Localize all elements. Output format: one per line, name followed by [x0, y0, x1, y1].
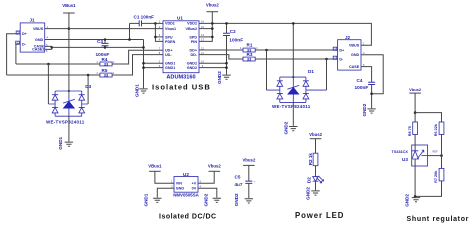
pin 3 (D+) number box [16, 31, 20, 35]
node shunt ground join [414, 195, 417, 198]
svg-text:GND1: GND1 [135, 84, 140, 97]
wire TVS D1 right tap drop [326, 59, 328, 90]
svg-text:R8 75: R8 75 [408, 126, 412, 136]
svg-text:R2 1k: R2 1k [308, 153, 313, 166]
wire J2 CASE down to C4 [361, 67, 372, 83]
svg-text:UD-: UD- [165, 53, 172, 57]
op-amp U1 ADUM3160 isolator [163, 16, 199, 81]
LED D2 [307, 176, 324, 183]
power VBus1 top-left [62, 3, 76, 13]
wire CASE stubs tie [45, 46, 52, 49]
wire U2 GND to ground [157, 188, 174, 197]
node C2 top [225, 22, 228, 25]
node GND2 pin10 [225, 62, 228, 65]
svg-text:TS431CX: TS431CX [392, 150, 409, 154]
svg-text:SPD: SPD [189, 35, 197, 39]
svg-text:U3: U3 [402, 157, 408, 162]
pin 3 (J2 D+) number box [333, 47, 337, 51]
wire R2 to LED [315, 166, 317, 177]
svg-text:C2: C2 [230, 29, 236, 34]
wire D1 center to GND2 [292, 102, 294, 126]
svg-text:GND1: GND1 [165, 62, 175, 66]
capacitor C2 100nF [223, 23, 243, 61]
ground GND1 under U2 [144, 193, 162, 206]
svg-text:C1 100nF: C1 100nF [134, 14, 155, 19]
node VDD1 tie [154, 22, 157, 25]
node D- / TVS tap [47, 63, 50, 66]
pin 2 (J2 D-) number box [333, 56, 337, 60]
svg-text:+V: +V [192, 182, 197, 186]
power VBus1 (DC/DC input) [148, 163, 162, 171]
svg-text:NMV0505SA: NMV0505SA [173, 193, 199, 198]
node CASE tie [51, 46, 54, 49]
node D+ / TVS tap [87, 74, 90, 77]
svg-text:D3: D3 [85, 84, 91, 89]
svg-text:PDEN: PDEN [165, 40, 176, 44]
node D1 top rail [292, 76, 294, 78]
svg-text:R6 22k: R6 22k [434, 123, 438, 136]
svg-text:UD+: UD+ [165, 49, 172, 53]
svg-text:Vbus2: Vbus2 [208, 163, 222, 168]
wire VDD1 to SPU/PDEN [155, 23, 163, 41]
ground GND2 under U2 [204, 193, 222, 206]
svg-text:C5: C5 [235, 174, 241, 179]
svg-text:100nF: 100nF [229, 37, 243, 43]
svg-text:WE-TVSP824011: WE-TVSP824011 [272, 104, 311, 109]
power Vbus2 (shunt branch) [409, 87, 422, 93]
wire U3 to ground [414, 166, 416, 197]
ground GND1 under U1 [135, 84, 148, 97]
wire J1 D- left and down [16, 44, 20, 64]
svg-text:GND: GND [176, 187, 185, 191]
node GND/CASE join [142, 46, 145, 49]
wire R4 to U1 UD+ [112, 50, 163, 64]
ground GND2 under LED [306, 187, 320, 200]
wire branch to R6 [415, 113, 441, 123]
svg-text:VBus1: VBus1 [62, 3, 76, 8]
pin numbers U2 [171, 179, 202, 188]
svg-text:4u7: 4u7 [235, 182, 243, 187]
node D1/Vbus2 rail [292, 22, 295, 25]
wire J1 D+ left and down [7, 34, 21, 75]
wire VDD2 top rail to J2 VBUS [199, 23, 371, 45]
pin numbers U1 right 16-9 [201, 20, 204, 68]
node GND1 pin7 [142, 62, 145, 65]
wire U1 pin14 stub [199, 36, 212, 38]
svg-text:VBus1: VBus1 [148, 163, 162, 168]
ground GND2 under J2 [362, 103, 376, 116]
svg-text:DD+: DD+ [190, 49, 197, 53]
power Vbus2 top-right [206, 2, 220, 11]
svg-text:Vbus1: Vbus1 [165, 27, 176, 31]
svg-text:33: 33 [104, 72, 109, 77]
wire R6 to REF node [441, 135, 443, 156]
svg-text:ADUM3160: ADUM3160 [166, 74, 195, 80]
svg-text:0V: 0V [192, 187, 197, 191]
resistor R8 75 [408, 122, 418, 136]
wire DD- jog to R3 [199, 55, 243, 59]
svg-text:GND2: GND2 [187, 66, 197, 70]
svg-text:J1: J1 [30, 17, 36, 22]
svg-text:C3: C3 [97, 39, 103, 44]
wire GND rail J1 to GND1 corner [45, 39, 144, 41]
node C1/GND [128, 38, 131, 41]
svg-text:Shunt regulator: Shunt regulator [407, 216, 470, 223]
resistor R7 20k [434, 168, 444, 183]
svg-text:D+: D+ [22, 32, 27, 36]
capacitor C4 100nF [355, 78, 376, 108]
svg-text:REF: REF [433, 150, 439, 154]
wire CASE rail to GND1 vertical [52, 46, 144, 48]
op-amp U2 NMV0505SA [173, 172, 199, 198]
svg-text:GND1: GND1 [165, 66, 175, 70]
wire R8 to U3 [414, 135, 416, 146]
wire Vbus2 down to R8 [414, 93, 416, 122]
node VBus1/VBUS junction [68, 27, 71, 30]
ground GND2 shunt [405, 194, 421, 207]
power Vbus2 (LED branch) [309, 132, 323, 139]
node D- / TVS D1 tap [325, 58, 328, 61]
svg-text:D2: D2 [307, 177, 312, 183]
wire D3 center to GND1 [68, 116, 70, 141]
wire U1 pin15 stub [199, 28, 212, 30]
capacitor C5 4u7 [235, 165, 256, 198]
svg-text:GND: GND [35, 38, 44, 42]
node GND2 pin9 [225, 66, 228, 69]
svg-text:SPU: SPU [165, 35, 173, 39]
wire Vbus2 to R2 [315, 139, 317, 154]
ground GND2 under C2 [217, 71, 231, 84]
wire D1 center up to Vbus2 rail [292, 23, 294, 77]
svg-text:Vbus2: Vbus2 [409, 87, 422, 92]
svg-text:VIN: VIN [176, 182, 182, 186]
wire VBUS rail J1 to U1 pin2 [45, 28, 163, 30]
node pin14 tie [211, 36, 214, 39]
svg-text:Isolated DC/DC: Isolated DC/DC [159, 213, 217, 220]
svg-text:GND2: GND2 [284, 121, 289, 134]
node SPU tie [154, 36, 157, 39]
svg-text:GND1: GND1 [144, 193, 149, 206]
svg-text:GND2: GND2 [362, 103, 367, 116]
wire C1 left leg down to GND rail [129, 23, 131, 39]
wire J2 GND right and down [361, 55, 383, 94]
svg-text:GND2: GND2 [306, 187, 311, 200]
svg-text:VBUS: VBUS [349, 44, 360, 48]
wire R5 to U1 UD- [112, 55, 163, 75]
svg-text:VBUS: VBUS [33, 27, 44, 31]
resistor R5 33 [97, 68, 116, 78]
wire R7 down and left to U3 cathode [415, 181, 441, 197]
ground GND1 under D3 [58, 136, 73, 149]
ground GND2 under C5 [234, 193, 253, 206]
svg-text:D+: D+ [339, 48, 344, 52]
svg-text:GND2: GND2 [217, 71, 222, 84]
pin numbers U1 left 1-8 [159, 20, 161, 68]
resistor R3 33 [243, 52, 255, 61]
svg-text:PIN: PIN [191, 40, 197, 44]
pin 2 (D-) number box [16, 41, 20, 45]
node REF [440, 154, 443, 157]
svg-text:GND: GND [351, 53, 360, 57]
wire U1 GND1 stubs [144, 63, 164, 67]
transistor U3 TS431CX shunt ref [392, 145, 428, 166]
svg-text:GND2: GND2 [187, 62, 197, 66]
svg-text:D1: D1 [308, 69, 314, 74]
svg-text:VDD1: VDD1 [165, 22, 175, 26]
svg-text:VBus2: VBus2 [186, 27, 197, 31]
svg-text:GND1: GND1 [58, 136, 63, 149]
wire R3 to J2 D- [255, 58, 337, 60]
svg-text:33: 33 [247, 56, 252, 61]
wire VBus1 to U2 VIN [155, 171, 174, 183]
node D+ / TVS D1 tap [265, 49, 268, 52]
resistor R4 33 [97, 57, 116, 67]
wire VBus1 vertical to VBUS rail and down to TVS D3 [68, 13, 70, 91]
node D3 top rail [68, 90, 70, 92]
ground GND2 under D1 [284, 121, 298, 134]
svg-text:R7 20k: R7 20k [434, 170, 438, 183]
svg-text:33: 33 [104, 61, 109, 66]
node C3 bottom [104, 46, 107, 49]
TVS array D3 WE-TVSP824011 [46, 84, 92, 124]
wire R1 to J2 D+ [255, 49, 337, 51]
power Vbus2 (DC/DC output) [208, 163, 222, 171]
svg-text:Vbus2: Vbus2 [309, 132, 323, 137]
wire LED to ground [315, 181, 317, 190]
wire TVS D1 left tap drop [266, 50, 268, 90]
node GND1 pin8 [142, 66, 145, 69]
wire U2 0V down to ground [198, 188, 217, 197]
svg-text:J2: J2 [345, 35, 351, 40]
resistor R6 22k [434, 122, 444, 136]
capacitor C1 100nF [130, 14, 164, 26]
resistor R1 33 [240, 42, 258, 52]
svg-text:Vbus2: Vbus2 [242, 157, 256, 162]
wire TVS left tap drop [47, 64, 49, 104]
svg-text:GND2: GND2 [204, 193, 209, 206]
svg-text:100nF: 100nF [355, 85, 369, 91]
connector J2 [338, 35, 361, 70]
node pin15 tie [211, 27, 214, 30]
svg-text:Power LED: Power LED [295, 211, 344, 220]
wire U1 GND2 stubs to GND2 vertical [199, 61, 227, 75]
capacitor C3 [96, 39, 110, 58]
power Vbus2 (C5 branch) [242, 157, 256, 165]
node C3 top [104, 38, 107, 41]
svg-text:GND2: GND2 [234, 193, 239, 206]
wire D- rail to R4 [16, 63, 100, 65]
wire U2 +V up to Vbus2 [198, 171, 214, 183]
svg-text:U1: U1 [177, 16, 183, 21]
wire REF to divider [428, 155, 442, 157]
svg-text:VDD2: VDD2 [187, 22, 197, 26]
resistor R2 1k [308, 153, 318, 166]
svg-text:DD-: DD- [190, 53, 197, 57]
wire DD+ to R1 [199, 49, 243, 51]
svg-text:WE-TVSP824011: WE-TVSP824011 [46, 119, 85, 124]
wire Vbus2 drop to VDD2 net [199, 12, 212, 42]
svg-text:GND2: GND2 [405, 194, 410, 207]
TVS array D1 WE-TVSP824011 [267, 69, 327, 109]
wire GND1 vertical [143, 40, 145, 89]
svg-text:C4: C4 [357, 78, 363, 83]
svg-text:CASE: CASE [349, 65, 360, 69]
connector J1 [20, 17, 45, 52]
node shunt branch split [414, 111, 417, 114]
node C4/GND join [370, 92, 373, 95]
wire REF node to R7 [441, 156, 443, 169]
wire TVS right tap drop [87, 75, 89, 104]
svg-text:Isolated USB: Isolated USB [152, 82, 211, 91]
node Vbus2/top rail [211, 22, 214, 25]
svg-text:Vbus2: Vbus2 [206, 2, 220, 7]
svg-text:CASE2: CASE2 [32, 48, 44, 52]
wire D+ rail to R5 [7, 74, 100, 76]
